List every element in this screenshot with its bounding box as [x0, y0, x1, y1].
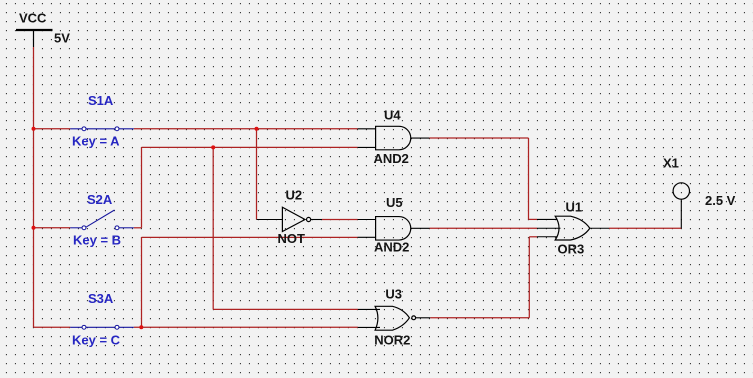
wire U5 output to OR3 input 2	[430, 227, 538, 229]
svg-text:Key = B: Key = B	[73, 233, 121, 248]
NOT gate U2 body	[282, 207, 310, 231]
NOT gate U2 pin output	[311, 219, 322, 221]
svg-text:OR3: OR3	[558, 242, 585, 257]
svg-text:NOT: NOT	[278, 231, 306, 246]
NOR2 gate U3 pins	[358, 309, 430, 327]
wire B branch to NOR2 input 1	[213, 308, 358, 310]
switch S2A (open)	[70, 210, 134, 230]
AND2 gate U5 pins	[358, 220, 430, 238]
wire VCC rail vertical	[33, 47, 35, 327]
svg-text:S3A: S3A	[88, 291, 114, 306]
wire node B riser up	[141, 147, 143, 227]
junction node B branch	[211, 145, 215, 149]
probe X1 stem	[680, 199, 682, 228]
junction node C	[139, 325, 143, 329]
wire into OR3 input 1	[529, 218, 538, 220]
svg-text:AND2: AND2	[374, 240, 409, 255]
svg-text:2.5 V: 2.5 V	[705, 193, 736, 208]
svg-text:U4: U4	[384, 108, 401, 123]
wire node C to U5 input 2	[142, 236, 358, 238]
svg-text:U2: U2	[286, 188, 303, 203]
wire S3A to NOR2 input 2	[134, 326, 358, 328]
svg-text:NOR2: NOR2	[374, 333, 410, 348]
svg-text:U1: U1	[566, 200, 583, 215]
svg-text:VCC: VCC	[19, 11, 47, 26]
svg-text:5V: 5V	[54, 31, 70, 46]
wire node C riser up	[141, 237, 143, 327]
svg-text:U3: U3	[385, 287, 402, 302]
power VCC symbol	[16, 30, 53, 47]
wire VCC to S2A	[34, 227, 71, 229]
wire node B branch down to NOR2	[212, 147, 214, 309]
svg-text:U5: U5	[386, 195, 403, 210]
wire VCC to S1A	[34, 128, 71, 130]
OR3 gate U1 body	[555, 216, 590, 240]
wire node B to U4 input 2	[142, 146, 358, 148]
wire node A branch down to NOT input	[256, 129, 258, 220]
wire OR3 output to probe X1	[609, 227, 681, 229]
junction node A	[32, 127, 36, 131]
wire NOR2 output horizontal	[430, 317, 529, 319]
wire VCC to S3A	[34, 326, 71, 328]
svg-text:S1A: S1A	[88, 93, 114, 108]
junction node A branch	[255, 127, 259, 131]
switch S3A (closed)	[70, 325, 134, 329]
switch S1A (closed)	[70, 127, 134, 131]
svg-text:Key = A: Key = A	[72, 134, 120, 149]
NOR2 gate U3 body	[375, 306, 416, 330]
wire U4 output down	[528, 138, 530, 219]
wire into OR3 input 3	[529, 236, 537, 238]
wire U4 output horizontal	[429, 137, 528, 139]
wire NOR2 output up	[528, 237, 530, 318]
OR3 gate U1 pins	[537, 219, 609, 236]
NOT gate U2 pin input	[257, 219, 283, 221]
junction node B rail	[32, 226, 36, 230]
probe X1 circle	[673, 183, 689, 199]
AND2 gate U4 body	[376, 126, 411, 150]
wire S1A to U4 input A	[134, 128, 358, 130]
svg-text:AND2: AND2	[374, 151, 409, 166]
wire S2A output stub	[134, 227, 142, 229]
svg-text:S2A: S2A	[87, 192, 113, 207]
AND2 gate U5 body	[376, 217, 411, 241]
wire NOT output to U5 input 1	[322, 219, 358, 221]
AND2 gate U4 pins	[358, 129, 430, 148]
svg-text:X1: X1	[663, 156, 679, 171]
svg-text:Key = C: Key = C	[72, 333, 121, 348]
